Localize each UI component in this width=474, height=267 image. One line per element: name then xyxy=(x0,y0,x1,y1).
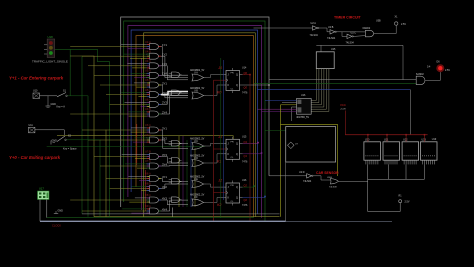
svg-text:U5:C: U5:C xyxy=(145,88,151,92)
wire inputs U5:A xyxy=(94,73,161,77)
svg-text:TIMER CIRCUIT: TIMER CIRCUIT xyxy=(334,16,362,20)
svg-text:U4:A: U4:A xyxy=(145,40,151,44)
svg-text:7476: 7476 xyxy=(242,92,248,95)
svg-text:U5:A: U5:A xyxy=(145,69,151,73)
or-gate U3:B xyxy=(327,177,339,189)
and-gate U4:C xyxy=(145,59,167,69)
wire blue horizontal xyxy=(258,89,411,91)
and-gate U9:A xyxy=(145,204,167,214)
svg-text:6AND2: 6AND2 xyxy=(363,27,371,30)
and-gate U7:B xyxy=(145,150,167,160)
and-gate U5:C xyxy=(145,88,167,98)
and-gate U8:C xyxy=(145,193,167,203)
led D6 xyxy=(427,61,450,73)
wire inputs U6:C xyxy=(82,128,161,132)
svg-text:U8:A: U8:A xyxy=(145,172,151,176)
wire green feed xyxy=(47,145,205,147)
svg-text:3Y1: 3Y1 xyxy=(162,126,167,130)
svg-text:74LS04: 74LS04 xyxy=(327,37,336,40)
and-gate U5:A xyxy=(145,69,167,79)
svg-text:74LS08: 74LS08 xyxy=(329,187,337,189)
svg-text:74LS04: 74LS04 xyxy=(346,41,355,44)
svg-text:Q0: Q0 xyxy=(244,85,248,89)
svg-text:4Y3: 4Y3 xyxy=(162,196,167,200)
ground clock xyxy=(54,210,63,214)
svg-text:U16: U16 xyxy=(242,179,247,182)
box subcircuit xyxy=(286,127,336,162)
wire inputs U7:B xyxy=(94,154,161,158)
wire inputs U8:C xyxy=(70,198,161,202)
ground switch2 xyxy=(51,140,77,151)
svg-text:U10: U10 xyxy=(33,90,38,93)
wire bus loop purple xyxy=(128,26,262,218)
and-gate right xyxy=(416,73,425,85)
label timer circuit xyxy=(334,16,362,20)
wire inputs U9:A xyxy=(82,209,161,213)
svg-text:+5.0V: +5.0V xyxy=(340,109,346,111)
svg-text:CAR SENSOR: CAR SENSOR xyxy=(316,171,339,175)
wire white horizontal xyxy=(316,45,403,51)
and-gate 2nd-col 6 xyxy=(169,197,182,203)
and-gate 2nd-col 5 xyxy=(169,179,182,185)
wire inputs U6:B xyxy=(70,112,161,116)
or-gate U10 xyxy=(190,69,206,81)
wire olive boundary xyxy=(94,33,280,217)
wire bus loop blue xyxy=(131,30,257,214)
and-gate U7:C xyxy=(145,159,167,169)
svg-text:Q: Q xyxy=(236,197,238,200)
and-gate clock xyxy=(363,27,374,37)
wire sensor chain xyxy=(269,176,368,182)
jk-flipflop U16 xyxy=(217,179,248,208)
label U19 xyxy=(432,138,437,141)
wire +5V rail xyxy=(345,134,428,136)
wire right gate xyxy=(269,45,440,80)
svg-text:U15: U15 xyxy=(331,48,336,51)
wire inputs U7:A xyxy=(88,138,161,142)
svg-text:TRAFFIC_LIGHT_SINGLE: TRAFFIC_LIGHT_SINGLE xyxy=(32,59,68,63)
chip 4017 xyxy=(296,94,311,119)
svg-text:U:D: U:D xyxy=(194,158,198,160)
svg-text:J2: J2 xyxy=(217,179,222,183)
switch S2 xyxy=(35,130,72,142)
svg-text:Q: Q xyxy=(236,186,238,189)
svg-text:U8:B: U8:B xyxy=(145,182,151,186)
svg-text:Q: Q xyxy=(236,142,238,145)
or-gate U14 xyxy=(190,175,206,187)
svg-text:U7:B: U7:B xyxy=(145,150,151,154)
wire inputs U6:A xyxy=(110,102,161,106)
svg-text:Q2: Q2 xyxy=(244,198,248,202)
or-gate U11 xyxy=(190,87,206,99)
svg-text:Q: Q xyxy=(236,84,238,87)
wire yellow net xyxy=(265,105,338,217)
wire FF outputs xyxy=(243,75,270,198)
power VCC xyxy=(340,103,346,135)
svg-text:U16: U16 xyxy=(301,94,306,97)
label clock net xyxy=(52,224,61,228)
wire driver bus xyxy=(368,164,425,211)
label car sensor xyxy=(316,171,339,175)
svg-text:GND: GND xyxy=(58,210,64,213)
svg-text:Key = Space: Key = Space xyxy=(63,148,77,151)
wire bottom gray thin xyxy=(82,213,280,215)
svg-text:2Y1: 2Y1 xyxy=(162,81,167,85)
svg-text:Q: Q xyxy=(236,153,238,156)
svg-text:7476: 7476 xyxy=(242,161,248,164)
inverter U2:B xyxy=(327,26,336,40)
wire clk U14 xyxy=(214,79,227,81)
svg-text:2.5V: 2.5V xyxy=(401,23,406,26)
label entering xyxy=(9,76,64,81)
svg-text:2.5V: 2.5V xyxy=(405,201,410,204)
svg-text:4Y1: 4Y1 xyxy=(162,175,167,179)
svg-text:Y+0 - Car Exiting carpark: Y+0 - Car Exiting carpark xyxy=(9,155,61,160)
svg-text:3Y2: 3Y2 xyxy=(162,136,167,140)
svg-text:1Y1: 1Y1 xyxy=(162,43,167,47)
svg-text:U9:A: U9:A xyxy=(145,204,151,208)
svg-text:U20: U20 xyxy=(365,139,370,142)
wire 4017 left pins xyxy=(258,100,297,121)
svg-text:J0: J0 xyxy=(217,66,222,70)
and-gate U5:B xyxy=(145,78,167,88)
wire green horizontal xyxy=(254,82,416,84)
svg-text:U6:C: U6:C xyxy=(145,123,151,127)
wire inputs U4:C xyxy=(88,64,161,68)
wire lower bundle verticals xyxy=(179,136,195,207)
svg-text:U:A: U:A xyxy=(194,71,198,74)
svg-text:J1: J1 xyxy=(217,135,222,139)
svg-text:Y+1 - Car Entering carpark: Y+1 - Car Entering carpark xyxy=(9,76,64,81)
svg-text:U14: U14 xyxy=(242,67,247,70)
wire inputs U4:B xyxy=(82,54,161,58)
svg-text:U:E: U:E xyxy=(194,179,198,181)
wire gate interconnects xyxy=(161,47,188,211)
wire red verticals xyxy=(137,58,146,211)
svg-text:U6:B: U6:B xyxy=(145,107,151,111)
wire bus loop gray xyxy=(121,17,269,207)
svg-text:U5B: U5B xyxy=(376,20,381,23)
power terminal X1 xyxy=(395,16,407,27)
clock component xyxy=(38,187,50,200)
svg-text:U3:B: U3:B xyxy=(327,177,332,179)
and-gate U6:A xyxy=(145,98,167,108)
svg-text:U23: U23 xyxy=(422,139,427,142)
svg-text:U15: U15 xyxy=(242,135,247,138)
bridge U7 xyxy=(288,142,299,149)
svg-text:U11: U11 xyxy=(29,124,34,127)
junction dots rail xyxy=(367,134,425,136)
svg-text:Q: Q xyxy=(236,74,238,77)
wire OR to U15 xyxy=(206,143,223,163)
svg-text:VCC: VCC xyxy=(340,103,346,107)
ground switch1 xyxy=(46,103,66,109)
svg-text:U2:A: U2:A xyxy=(311,22,317,25)
wire clock chain xyxy=(254,25,397,36)
svg-text:U19: U19 xyxy=(432,138,437,141)
wire green vertical xyxy=(220,58,222,218)
traffic light U8 xyxy=(32,35,68,64)
wire clock vertical xyxy=(213,80,215,221)
svg-text:U8:C: U8:C xyxy=(145,193,151,197)
power terminal R1 xyxy=(399,195,410,204)
wire bottom green xyxy=(47,217,254,219)
svg-text:U:F: U:F xyxy=(194,197,198,199)
svg-text:U21: U21 xyxy=(384,139,389,142)
wire OR to U14 xyxy=(206,75,223,96)
wire inputs U5:B xyxy=(100,83,161,87)
svg-text:3Y4: 3Y4 xyxy=(162,162,167,166)
svg-text:PR: PR xyxy=(231,73,234,75)
svg-text:U2:D: U2:D xyxy=(299,171,305,174)
or-gate U12 xyxy=(190,137,206,149)
inverter U2:D xyxy=(299,171,313,183)
and-gate U6:C xyxy=(145,123,167,133)
junction dots FF outputs xyxy=(249,74,270,198)
svg-text:U7:C: U7:C xyxy=(145,159,151,163)
and-gate U8:A xyxy=(145,172,167,182)
svg-text:1Y2: 1Y2 xyxy=(162,53,167,57)
svg-text:7476: 7476 xyxy=(242,204,248,207)
jk-flipflop U15 xyxy=(217,135,248,164)
driver U23 xyxy=(421,135,438,165)
svg-text:U6:A: U6:A xyxy=(145,98,151,102)
wire switch1 out xyxy=(48,96,88,103)
svg-text:74LS04: 74LS04 xyxy=(303,180,312,183)
svg-text:2.5V: 2.5V xyxy=(445,69,450,72)
svg-text:U17: U17 xyxy=(39,187,44,191)
svg-text:U7:A: U7:A xyxy=(145,133,151,137)
crystal U11 xyxy=(28,124,35,133)
and-gate 2nd-col 1 xyxy=(169,72,182,78)
svg-text:GND: GND xyxy=(52,140,58,143)
svg-text:4017BD_5V: 4017BD_5V xyxy=(296,116,309,119)
wire inputs U8:A xyxy=(106,176,161,180)
and-gate 2nd-col 3 xyxy=(169,141,182,147)
svg-text:6AND2: 6AND2 xyxy=(416,73,424,76)
and-gate U6:B xyxy=(145,107,167,117)
svg-text:2Y3: 2Y3 xyxy=(162,101,167,105)
svg-text:PR: PR xyxy=(231,185,234,187)
svg-text:GND: GND xyxy=(51,103,57,106)
svg-text:2Y4: 2Y4 xyxy=(162,110,167,114)
jk-flipflop U14 xyxy=(217,66,248,95)
wire switch2 out xyxy=(67,139,101,141)
box U15b xyxy=(316,48,336,69)
or-gate U13 xyxy=(190,154,206,166)
svg-text:3Y3: 3Y3 xyxy=(162,153,167,157)
driver U21 xyxy=(383,135,400,165)
wire bottom clock thick xyxy=(40,162,392,221)
switch S1 xyxy=(40,90,68,97)
driver U22 xyxy=(402,135,419,165)
wire inputs U4:A xyxy=(70,45,161,49)
wire olive feed J1 preset xyxy=(57,136,233,140)
svg-text:U4:B: U4:B xyxy=(145,49,151,53)
wire inputs U8:B xyxy=(110,186,161,190)
and-gate U7:A xyxy=(145,133,167,143)
wire blue vertical xyxy=(223,60,225,200)
svg-text:U:B: U:B xyxy=(194,90,198,92)
svg-text:74LS04: 74LS04 xyxy=(310,34,319,37)
svg-text:U18: U18 xyxy=(48,35,54,39)
and-gate 2nd-col 2 xyxy=(169,90,182,96)
or-gate U15 xyxy=(190,194,206,206)
and-gate 2nd-col 4 xyxy=(169,158,182,164)
driver U20 xyxy=(364,135,381,165)
crystal U10 xyxy=(33,90,40,99)
svg-text:U2:B: U2:B xyxy=(328,26,334,29)
wire green staircase xyxy=(55,49,110,216)
label U5B xyxy=(376,20,381,23)
wire clk U16 xyxy=(214,192,227,194)
wire bus loop green xyxy=(124,21,265,221)
svg-text:U5:B: U5:B xyxy=(145,78,151,82)
wire dark red feedback xyxy=(249,75,251,222)
inverter U2:C xyxy=(346,31,357,44)
svg-text:U:C: U:C xyxy=(194,141,198,143)
wire OR to U16 xyxy=(206,184,223,202)
and-gate U8:B xyxy=(145,182,167,192)
svg-text:Key = A: Key = A xyxy=(57,106,66,109)
wire inputs U5:C xyxy=(106,93,161,97)
inverter U2:A xyxy=(310,22,319,37)
wire white vert right xyxy=(409,90,411,135)
wire bus loop orange xyxy=(136,36,254,217)
svg-text:U4:C: U4:C xyxy=(145,59,151,63)
label exiting xyxy=(9,155,61,160)
and-gate U4:B xyxy=(145,49,167,59)
wire clk U15 xyxy=(214,148,227,150)
svg-text:U22: U22 xyxy=(403,139,408,142)
wire inputs U7:C xyxy=(100,164,161,168)
svg-text:PR: PR xyxy=(231,141,234,143)
svg-text:4Y4: 4Y4 xyxy=(162,207,167,211)
and-gate U4:A xyxy=(145,40,167,50)
svg-text:CLOCK: CLOCK xyxy=(52,224,61,228)
wire fan xyxy=(311,69,329,112)
wire riser xyxy=(172,208,174,217)
wire clock legs xyxy=(40,200,47,222)
svg-text:Q1: Q1 xyxy=(244,154,248,158)
